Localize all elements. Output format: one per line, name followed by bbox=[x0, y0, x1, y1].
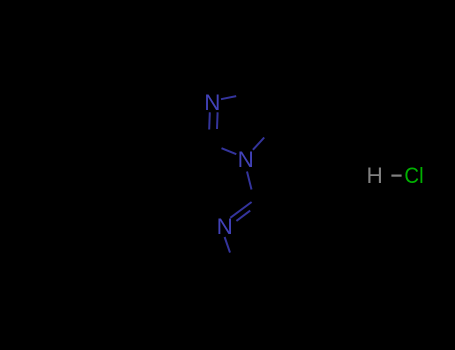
wire: bond Npy-C6py bbox=[225, 237, 230, 253]
wire: bond N1-pyridine C2 bbox=[247, 172, 252, 190]
wire: bond H-Cl bbox=[391, 175, 401, 177]
svg-text:H: H bbox=[367, 163, 383, 188]
wire: double bond N3=C2 line a bbox=[208, 112, 211, 129]
wire: double bond Npy=C2py line a bbox=[230, 202, 251, 218]
wire: bond C2-N1 bbox=[222, 148, 237, 154]
wire: double bond N3=C2 line b bbox=[216, 112, 219, 129]
svg-text:Cl: Cl bbox=[404, 163, 423, 188]
wire: bond N3-C4 bbox=[221, 96, 236, 99]
wire: bond N1-C5 bbox=[253, 138, 264, 150]
wire: double bond Npy=C2py line b bbox=[236, 211, 250, 221]
svg-text:N: N bbox=[238, 147, 254, 172]
svg-text:N: N bbox=[204, 90, 220, 115]
